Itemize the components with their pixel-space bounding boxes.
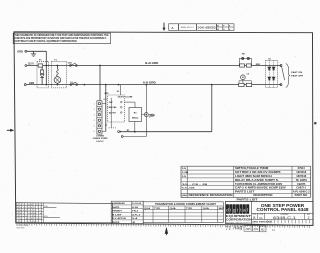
svg-text:ASSEMBLED: ASSEMBLED <box>112 202 126 205</box>
svg-text:QUA: QUA <box>203 207 210 210</box>
svg-text:REFERENCE DESIGNATION: REFERENCE DESIGNATION <box>189 194 233 197</box>
svg-text:COPYRIGHT 1969 BY DIGITAL: COPYRIGHT 1969 BY DIGITAL EQUIPMENT CORP… <box>15 40 77 43</box>
svg-text:1JB: 1JB <box>182 172 189 174</box>
svg-text:i: i <box>230 208 231 214</box>
svg-text:1: 1 <box>94 103 95 105</box>
svg-text:CONTROL PANEL 6348: CONTROL PANEL 6348 <box>257 207 310 212</box>
svg-text:3: 3 <box>94 114 95 116</box>
svg-text:MFD DWGS NO.: MFD DWGS NO. <box>253 221 274 223</box>
svg-text:A-8 GRD: A-8 GRD <box>143 81 156 85</box>
svg-text:5: 5 <box>94 126 95 128</box>
svg-text:FN-2: FN-2 <box>132 211 138 213</box>
svg-text:SEAL: SEAL <box>132 117 139 120</box>
svg-text:M2: M2 <box>261 227 265 231</box>
svg-text:1G: 1G <box>182 176 187 178</box>
svg-text:C9: C9 <box>247 73 249 75</box>
svg-text:PARTS LIST: PARTS LIST <box>235 191 255 194</box>
svg-text:1872218: 1872218 <box>296 171 306 174</box>
svg-text:REV 8/69: REV 8/69 <box>17 227 25 229</box>
svg-text:D-CS-63: D-CS-63 <box>132 203 141 205</box>
svg-text:PART NO.: PART NO. <box>295 194 308 197</box>
svg-text:4: 4 <box>94 120 95 122</box>
svg-text:CKT BKR 4 GD 220-CV 20AMPS: CKT BKR 4 GD 220-CV 20AMPS <box>235 171 281 174</box>
svg-text:SEE ECO: SEE ECO <box>181 27 195 29</box>
svg-text:LIGHT 3880 SLIM BOSCH: LIGHT 3880 SLIM BOSCH <box>235 175 272 178</box>
svg-text:115V COM: 115V COM <box>117 96 133 98</box>
svg-text:l: l <box>247 208 248 214</box>
svg-text:C1 ,G8: C1 ,G8 <box>182 188 196 190</box>
svg-text:A: A <box>172 26 174 30</box>
svg-text:A-PL-2: A-PL-2 <box>132 213 140 216</box>
svg-text:g: g <box>233 209 236 214</box>
svg-text:RELAY DB-A 24VDC 5URPT S.: RELAY DB-A 24VDC 5URPT S. <box>235 179 279 182</box>
svg-text:A-PL-6348-C-2: A-PL-6348-C-2 <box>293 191 311 194</box>
svg-text:2: 2 <box>132 222 135 224</box>
svg-text:1G: 1G <box>182 168 187 170</box>
svg-text:1807448: 1807448 <box>296 175 306 178</box>
svg-text:8: 8 <box>229 29 230 31</box>
svg-text:TRANSISTOR & DIODE COMPLEMENT: TRANSISTOR & DIODE COMPLEMENT CHART <box>155 203 217 206</box>
svg-text:DESCRIPTION: DESCRIPTION <box>253 195 272 197</box>
svg-text:C92375: C92375 <box>297 183 306 186</box>
svg-text:EQUIPMENT: EQUIPMENT <box>226 214 252 218</box>
svg-text:QUA: QUA <box>144 207 151 210</box>
svg-text:a: a <box>243 209 246 214</box>
svg-text:QUAN: QUAN <box>181 194 187 197</box>
svg-text:434: 434 <box>254 227 259 231</box>
svg-text:SWITCH,TOGGLE 7560M: SWITCH,TOGGLE 7560M <box>235 167 268 170</box>
svg-text:67914: 67914 <box>298 167 306 170</box>
svg-text:8-20: 8-20 <box>132 207 138 209</box>
svg-text:FINISH: FINISH <box>112 211 123 213</box>
svg-text:GRD: GRD <box>104 93 109 95</box>
svg-text:TE 14879: TE 14879 <box>296 179 308 182</box>
svg-text:B LIST: B LIST <box>112 214 123 216</box>
svg-text:MADE: MADE <box>112 221 120 224</box>
svg-text:2M5: 2M5 <box>245 227 251 231</box>
svg-text:R.V. APPLE: R.V. APPLE <box>112 217 127 220</box>
svg-text:GRD: GRD <box>103 99 108 101</box>
svg-text:THYRATRON CL AMPERATOR 230V: THYRATRON CL AMPERATOR 230V <box>235 183 283 186</box>
svg-text:CORPORATION: CORPORATION <box>226 218 252 222</box>
svg-text:CH672-1: CH672-1 <box>296 187 306 190</box>
svg-text:FAST OFF: FAST OFF <box>291 75 304 78</box>
svg-text:QUA: QUA <box>170 207 177 210</box>
svg-text:M: M <box>242 77 244 79</box>
svg-text:4 TERM: 4 TERM <box>96 135 104 138</box>
svg-text:2: 2 <box>94 109 95 111</box>
svg-text:AUTO: AUTO <box>109 111 117 114</box>
svg-text:1-O-8 +GB ECO: 1-O-8 +GB ECO <box>198 27 216 30</box>
svg-text:RED: RED <box>256 64 261 66</box>
svg-text:CAP 2 X 4MFD 600VDC KCMP 330V: CAP 2 X 4MFD 600VDC KCMP 330V <box>235 187 286 190</box>
svg-text:115 V: 115 V <box>28 63 34 65</box>
svg-text:8: 8 <box>229 26 230 28</box>
svg-text:2-141-Y: 2-141-Y <box>96 140 104 143</box>
svg-text:GRD: GRD <box>17 50 23 53</box>
svg-text:1G - C8 - J8: 1G - C8 - J8 <box>182 184 209 186</box>
svg-text:LOCAL: LOCAL <box>109 106 118 109</box>
svg-text:DATE: DATE <box>112 206 120 209</box>
svg-text:d: d <box>226 208 229 214</box>
svg-text:6: 6 <box>94 131 95 133</box>
svg-text:FAST ON: FAST ON <box>291 71 303 74</box>
svg-text:i: i <box>237 208 238 214</box>
svg-text:B+8 GRD: B+8 GRD <box>145 61 158 65</box>
